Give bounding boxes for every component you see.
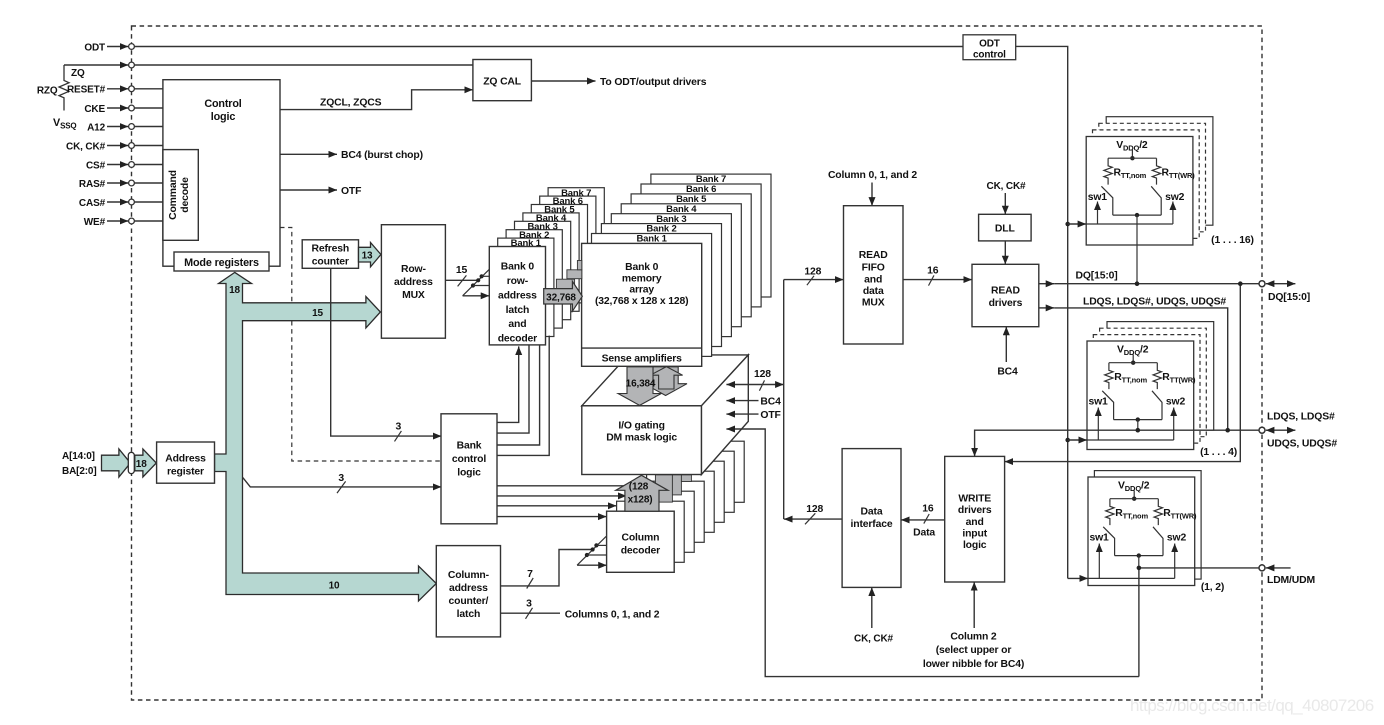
bus 128x128 arrow column decoder to I/O gating xyxy=(616,475,668,511)
node junction xyxy=(1065,222,1070,227)
wire CAS# stub xyxy=(107,201,128,203)
wire bank select to column decoders 1 xyxy=(497,485,637,487)
slash bus 3 xyxy=(395,431,402,442)
block DM termination front box xyxy=(1088,477,1195,586)
wire sw1 control arrow xyxy=(1097,202,1099,225)
node VDDQ xyxy=(1131,361,1135,365)
block row latch stack banks 7..1 xyxy=(548,188,604,286)
bus 16384 front down arrow xyxy=(618,367,661,406)
bus 13 refresh to MUX xyxy=(359,243,381,267)
wire ZQ to ZQ CAL xyxy=(135,64,473,66)
wire BC4 into I/O gating xyxy=(726,400,758,402)
wire CK to control logic xyxy=(135,145,163,147)
svg-text:control: control xyxy=(452,454,486,465)
svg-text:Bank 0: Bank 0 xyxy=(501,262,535,273)
svg-text:FIFO: FIFO xyxy=(862,263,885,274)
svg-text:and: and xyxy=(966,517,984,528)
svg-text:RAS#: RAS# xyxy=(79,179,106,190)
svg-text:CS#: CS# xyxy=(86,160,106,171)
bus 16384 up arrow xyxy=(650,367,682,389)
wire DQ write feedback xyxy=(1005,284,1241,462)
wire DQS line to pad xyxy=(1054,308,1227,430)
slash bus 128 xyxy=(807,276,814,285)
wire column address 7 xyxy=(501,550,593,586)
switch sw2 blade xyxy=(1152,391,1162,420)
svg-text:logic: logic xyxy=(457,467,481,478)
block column address counter latch xyxy=(436,546,500,637)
wire center tap to DQ line xyxy=(1136,215,1138,284)
node junction xyxy=(1065,438,1070,443)
node WE# circle xyxy=(129,218,135,224)
block READ FIFO xyxy=(844,206,904,344)
block row-address MUX xyxy=(381,225,445,339)
slash bus 16 xyxy=(929,275,935,285)
block DQS termination dashed box 1 xyxy=(1093,335,1200,444)
wire switch bottom rail xyxy=(1115,555,1163,557)
wire VDDQ stem xyxy=(1132,355,1134,363)
wire fan stub lower xyxy=(473,285,489,287)
svg-text:3: 3 xyxy=(338,473,344,484)
slash bus 128 xyxy=(759,380,764,390)
wire CS# stub xyxy=(107,164,128,166)
switch sw2 blade xyxy=(1151,186,1161,215)
wire bank select to bank0 latch xyxy=(497,346,519,422)
svg-text:BC4: BC4 xyxy=(997,367,1018,378)
block ZQ CAL xyxy=(473,60,532,101)
svg-text:sw2: sw2 xyxy=(1166,397,1186,408)
node junction DQ stem xyxy=(1135,281,1140,286)
svg-text:18: 18 xyxy=(229,285,240,296)
switch sw1 blade xyxy=(1102,391,1113,420)
block mode registers xyxy=(174,252,269,271)
svg-text:drivers: drivers xyxy=(958,505,992,516)
node A12 circle xyxy=(129,124,135,130)
bus 18 into address register xyxy=(135,449,157,477)
wire OTF output xyxy=(280,189,337,191)
block I/O gating top face xyxy=(582,355,749,406)
svg-text:(1 . . . 4): (1 . . . 4) xyxy=(1200,447,1237,458)
bus 128 I/O gating bidirectional xyxy=(726,384,783,386)
wire RESET# to control logic xyxy=(135,88,163,90)
bus A BA input arrow xyxy=(102,449,131,477)
wire CK into DLL xyxy=(1004,193,1006,214)
svg-text:Sense amplifiers: Sense amplifiers xyxy=(602,354,683,365)
wire ODT input inside box xyxy=(1088,577,1175,579)
svg-text:interface: interface xyxy=(851,519,893,530)
wire CKE stub xyxy=(107,107,128,109)
wire WE# to command decode xyxy=(135,220,163,222)
svg-text:LDQS, LDQS#, UDQS, UDQS#: LDQS, LDQS#, UDQS, UDQS# xyxy=(1083,296,1226,307)
svg-text:drivers: drivers xyxy=(989,298,1023,309)
node LDM pad circle xyxy=(1259,565,1265,571)
node RAS# circle xyxy=(129,180,135,186)
svg-text:Address: Address xyxy=(165,454,206,465)
node junction DQS stem xyxy=(1136,428,1141,433)
wire bank select to column decoders 3 xyxy=(497,505,617,507)
svg-text:counter/: counter/ xyxy=(449,596,489,607)
bus 16 write data xyxy=(901,519,945,521)
svg-text:(1, 2): (1, 2) xyxy=(1201,582,1224,593)
wire fan stub upper xyxy=(596,544,606,546)
svg-text:A[14:0]: A[14:0] xyxy=(62,451,95,462)
wire CKE to control logic xyxy=(135,107,163,109)
svg-text:LDM/UDM: LDM/UDM xyxy=(1267,575,1315,586)
svg-text:DQ[15:0]: DQ[15:0] xyxy=(1268,292,1310,303)
wire into termination 3 xyxy=(1068,577,1088,579)
svg-text:32,768: 32,768 xyxy=(546,293,576,304)
block bank0 memory array xyxy=(582,243,702,366)
block DLL xyxy=(979,214,1032,241)
block WRITE drivers xyxy=(945,456,1005,582)
svg-text:address: address xyxy=(394,277,433,288)
wire termination rail xyxy=(1109,362,1157,364)
svg-text:and: and xyxy=(864,274,882,285)
wire sw2 control arrow xyxy=(1172,202,1174,225)
node fan dot 3 xyxy=(480,274,484,278)
block address register xyxy=(157,442,215,483)
svg-text:Column: Column xyxy=(622,532,660,543)
svg-text:To ODT/output drivers: To ODT/output drivers xyxy=(600,77,707,88)
node RESET# circle xyxy=(129,86,135,92)
wire ODT to ODT control xyxy=(135,46,964,48)
svg-text:15: 15 xyxy=(312,308,323,319)
block DM termination back box xyxy=(1094,471,1201,579)
block memory array stack banks 7..1 xyxy=(651,174,771,297)
svg-text:register: register xyxy=(167,467,204,478)
svg-text:logic: logic xyxy=(963,540,987,551)
svg-text:I/O gating: I/O gating xyxy=(618,420,664,431)
wire sw1 control arrow xyxy=(1098,544,1100,579)
svg-text:Control: Control xyxy=(204,98,241,110)
block column decoder bank 0 xyxy=(607,511,675,572)
svg-text:DQ[15:0]: DQ[15:0] xyxy=(1076,271,1118,282)
svg-text:control: control xyxy=(973,49,1006,60)
node fan dot 3 xyxy=(594,543,598,547)
node ODT pad circle xyxy=(129,44,135,50)
node junction LDM xyxy=(1137,566,1142,571)
svg-text:DM mask logic: DM mask logic xyxy=(606,432,677,443)
svg-text:Columns 0, 1, and 2: Columns 0, 1, and 2 xyxy=(565,609,660,620)
svg-text:sw1: sw1 xyxy=(1088,397,1108,408)
bus 32768 gray steps xyxy=(556,279,574,288)
wire bank address 3 to bank control xyxy=(243,478,442,487)
wire ZQ CAL output xyxy=(531,80,595,82)
wire fan stub upper xyxy=(482,275,490,277)
svg-text:decoder: decoder xyxy=(621,545,660,556)
node DQ pad circle xyxy=(1259,281,1265,287)
svg-text:Column 0, 1, and 2: Column 0, 1, and 2 xyxy=(828,170,917,181)
svg-text:Column-: Column- xyxy=(448,570,490,581)
slash bus 16 xyxy=(924,514,929,524)
block READ drivers xyxy=(972,264,1039,326)
block DQS termination dashed box 2 xyxy=(1100,328,1207,437)
wire OTF into I/O gating xyxy=(726,413,758,415)
svg-text:16: 16 xyxy=(922,504,934,515)
bus 128 data interface to riser xyxy=(784,518,842,520)
svg-text:Bank 0: Bank 0 xyxy=(625,262,659,273)
svg-text:OTF: OTF xyxy=(760,410,780,421)
block refresh counter xyxy=(302,240,358,268)
node DQS pad circle xyxy=(1259,427,1265,433)
svg-text:ZQCL, ZQCS: ZQCL, ZQCS xyxy=(320,98,382,109)
svg-text:128: 128 xyxy=(754,369,771,380)
wire ODT input inside box xyxy=(1086,223,1173,225)
wire LDQS output xyxy=(1039,307,1055,309)
wire sw2 control arrow xyxy=(1174,544,1176,579)
wire CS# to command decode xyxy=(135,164,163,166)
svg-text:READ: READ xyxy=(859,250,888,261)
svg-text:array: array xyxy=(629,285,654,296)
node CAS# circle xyxy=(129,199,135,205)
wire bank select staircase 3 xyxy=(497,345,540,445)
wire DLL to READ drivers xyxy=(1004,241,1006,264)
wire into termination 2 xyxy=(1068,439,1087,441)
block ODT control xyxy=(963,35,1016,60)
wire column select into READ FIFO xyxy=(871,183,873,206)
svg-text:UDQS, UDQS#: UDQS, UDQS# xyxy=(1267,439,1337,450)
wire LDM line xyxy=(1139,567,1259,569)
wire RESET# stub xyxy=(107,88,128,90)
wire CK stub xyxy=(107,145,128,147)
svg-text:Mode registers: Mode registers xyxy=(184,257,259,269)
svg-text:READ: READ xyxy=(991,285,1020,296)
node fan dot 1 xyxy=(585,553,589,557)
slash bus 7 xyxy=(527,578,534,589)
block column decoder stack banks 7..1 xyxy=(677,441,745,502)
wire LDM pad arrow xyxy=(1266,567,1291,569)
bus DQ pad double arrow xyxy=(1266,283,1296,285)
wire CK into data interface xyxy=(871,587,873,628)
wire refresh counter to bank control 3 xyxy=(331,268,442,436)
svg-text:3: 3 xyxy=(526,598,532,609)
wire ZQCL ZQCS to ZQ CAL xyxy=(280,90,473,110)
svg-text:Row-: Row- xyxy=(401,264,426,275)
svg-text:https://blog.csdn.net/qq_40807: https://blog.csdn.net/qq_40807206 xyxy=(1130,696,1374,715)
svg-text:CK, CK#: CK, CK# xyxy=(66,141,106,152)
node VDDQ xyxy=(1132,497,1136,501)
wire switch bottom rail xyxy=(1114,419,1162,421)
node center tap xyxy=(1135,213,1139,217)
wire RAS# to command decode xyxy=(135,182,163,184)
wire sw2 control arrow xyxy=(1173,408,1175,441)
block bank control logic xyxy=(441,414,497,524)
wire bank select staircase 2 xyxy=(497,345,529,433)
svg-text:data: data xyxy=(863,286,884,297)
wire DM mask path xyxy=(726,429,1139,677)
wire fan stub lower xyxy=(587,554,607,556)
svg-text:A12: A12 xyxy=(87,122,105,133)
svg-text:15: 15 xyxy=(456,265,468,276)
svg-text:and: and xyxy=(508,319,526,330)
bus 16 READ FIFO to READ drivers xyxy=(903,279,972,281)
wire A12 stub xyxy=(107,126,128,128)
svg-text:CK, CK#: CK, CK# xyxy=(854,633,894,644)
node VDDQ xyxy=(1130,156,1134,160)
bus 32768 arrow latch to array xyxy=(544,281,583,311)
wire termination rail xyxy=(1110,498,1158,500)
wire DQ output xyxy=(1039,283,1055,285)
node center tap xyxy=(1136,417,1140,421)
wire ODT control feed xyxy=(1016,46,1068,578)
svg-text:(32,768 x 128 x 128): (32,768 x 128 x 128) xyxy=(595,296,688,307)
wire DQS pad line to WRITE drivers xyxy=(975,430,1259,456)
block DQ termination front box xyxy=(1086,137,1193,246)
svg-text:logic: logic xyxy=(211,111,236,123)
wire fan arrow into bank0 latch xyxy=(463,295,490,297)
svg-text:latch: latch xyxy=(457,609,481,620)
wire MUX to latch fan 15 xyxy=(445,279,478,281)
svg-text:16: 16 xyxy=(927,266,939,277)
svg-text:7: 7 xyxy=(527,569,533,580)
block data interface xyxy=(842,449,901,588)
slash bus 128 xyxy=(805,513,815,524)
svg-text:x128): x128) xyxy=(628,494,653,505)
block command decode xyxy=(163,150,198,241)
resistor RTT(WR) xyxy=(1153,363,1161,389)
switch sw2 blade xyxy=(1153,527,1163,556)
resistor RZQ xyxy=(59,65,69,111)
svg-text:(select upper or: (select upper or xyxy=(936,645,1012,656)
resistor RTT,nom xyxy=(1106,499,1114,525)
resistor RTT(WR) xyxy=(1152,158,1160,184)
svg-text:BC4: BC4 xyxy=(760,397,781,408)
svg-text:sw2: sw2 xyxy=(1165,192,1185,203)
svg-text:CKE: CKE xyxy=(84,104,105,115)
svg-text:sw1: sw1 xyxy=(1089,533,1109,544)
svg-text:CK, CK#: CK, CK# xyxy=(987,181,1027,192)
node CK circle xyxy=(129,143,135,149)
node junction DQS corner xyxy=(1225,428,1230,433)
node pad oval xyxy=(128,452,134,473)
svg-text:LDQS, LDQS#: LDQS, LDQS# xyxy=(1267,412,1335,423)
bus DQS pad double arrow xyxy=(1266,429,1296,431)
wire switch bottom rail xyxy=(1113,214,1161,216)
svg-text:latch: latch xyxy=(506,305,530,316)
svg-text:18: 18 xyxy=(136,459,147,470)
svg-text:ZQ: ZQ xyxy=(71,68,85,79)
bus address teal main xyxy=(215,272,437,601)
svg-text:OTF: OTF xyxy=(341,186,361,197)
svg-text:128: 128 xyxy=(806,504,823,515)
svg-text:13: 13 xyxy=(362,250,373,261)
node ZQ pad circle xyxy=(129,62,135,68)
wire ODT input inside box xyxy=(1087,439,1174,441)
svg-text:(1 . . . 16): (1 . . . 16) xyxy=(1211,235,1254,246)
block DQ termination back box xyxy=(1106,117,1213,226)
wire bank select staircase 4 xyxy=(497,336,549,456)
slash bus 3 xyxy=(526,608,533,619)
wire bank select to column decoders 4 xyxy=(497,516,607,518)
wire center tap to LDM line xyxy=(1138,556,1140,568)
svg-text:Data: Data xyxy=(913,528,935,539)
svg-text:address: address xyxy=(498,290,537,301)
wire BC4 into READ drivers xyxy=(1005,327,1007,362)
svg-text:ODT: ODT xyxy=(84,42,105,53)
node CS# circle xyxy=(129,162,135,168)
svg-text:(128: (128 xyxy=(629,481,649,492)
svg-text:128: 128 xyxy=(804,267,821,278)
wire read-write riser xyxy=(783,280,785,519)
block I/O gating front face xyxy=(582,406,702,475)
svg-text:Bank: Bank xyxy=(457,440,482,451)
wire WE# stub xyxy=(107,220,128,222)
node fan dot 2 xyxy=(476,278,480,282)
node fan dot 1 xyxy=(471,283,475,287)
svg-text:16,384: 16,384 xyxy=(626,379,656,390)
svg-text:BA[2:0]: BA[2:0] xyxy=(62,466,97,477)
svg-text:address: address xyxy=(449,583,488,594)
block I/O gating right face xyxy=(701,355,748,475)
svg-text:Data: Data xyxy=(861,507,883,518)
block bank0 row address latch xyxy=(489,247,545,345)
wire DQ line to pad xyxy=(1054,283,1259,285)
svg-text:CAS#: CAS# xyxy=(79,198,106,209)
wire column 2 into WRITE drivers xyxy=(973,582,975,628)
bus 128 riser to READ FIFO xyxy=(784,279,844,281)
bus 16384 back down arrow xyxy=(644,367,687,396)
wire VDDQ stem xyxy=(1133,491,1135,499)
svg-text:DLL: DLL xyxy=(995,224,1016,235)
node CKE circle xyxy=(129,105,135,111)
block control logic U1 xyxy=(163,80,280,267)
svg-text:RZQ: RZQ xyxy=(37,85,58,96)
svg-text:ZQ CAL: ZQ CAL xyxy=(483,77,522,88)
wire A12 to control logic xyxy=(135,126,163,128)
svg-text:RESET#: RESET# xyxy=(67,85,106,96)
svg-text:input: input xyxy=(962,529,987,540)
resistor RTT,nom xyxy=(1104,158,1112,184)
inner dashed boundary xyxy=(280,228,441,462)
svg-text:decode: decode xyxy=(180,177,191,213)
svg-text:memory: memory xyxy=(622,273,662,284)
block DQS termination front box xyxy=(1087,341,1194,450)
block DQS termination back box xyxy=(1107,322,1214,431)
wire ODT pad stub xyxy=(107,46,128,48)
svg-text:Column 2: Column 2 xyxy=(950,631,997,642)
node fan dot 2 xyxy=(591,547,595,551)
svg-text:BC4 (burst chop): BC4 (burst chop) xyxy=(341,150,423,161)
wire fan arrow into column decoder xyxy=(577,564,607,566)
svg-text:WE#: WE# xyxy=(84,217,106,228)
node center tap xyxy=(1137,553,1141,557)
svg-text:decoder: decoder xyxy=(498,334,537,345)
wire columns 0 1 2 xyxy=(501,612,561,614)
wire RAS# stub xyxy=(107,182,128,184)
svg-text:MUX: MUX xyxy=(402,290,425,301)
wire VDDQ stem xyxy=(1131,150,1133,158)
wire sw1 control arrow xyxy=(1097,408,1099,441)
wire into termination 1 xyxy=(1068,223,1087,225)
svg-text:MUX: MUX xyxy=(862,298,885,309)
slash bus 3 xyxy=(337,481,346,493)
block DQ termination dashed box 2 xyxy=(1099,123,1206,232)
svg-text:Refresh: Refresh xyxy=(311,244,349,255)
svg-text:ODT: ODT xyxy=(979,38,1000,49)
resistor RTT(WR) xyxy=(1154,499,1162,525)
svg-text:row-: row- xyxy=(507,276,529,287)
switch sw1 blade xyxy=(1103,527,1114,556)
wire ZQ pad stub xyxy=(64,64,128,66)
svg-text:10: 10 xyxy=(329,580,340,591)
slash bus 15 xyxy=(458,275,467,286)
svg-text:3: 3 xyxy=(395,422,401,433)
svg-text:WRITE: WRITE xyxy=(958,494,991,505)
block DQ termination dashed box 1 xyxy=(1093,130,1200,239)
svg-text:counter: counter xyxy=(312,257,349,268)
svg-text:lower nibble for BC4): lower nibble for BC4) xyxy=(923,659,1024,670)
wire BC4 burst chop output xyxy=(280,153,337,155)
wire center tap to DQS line xyxy=(1137,420,1139,431)
